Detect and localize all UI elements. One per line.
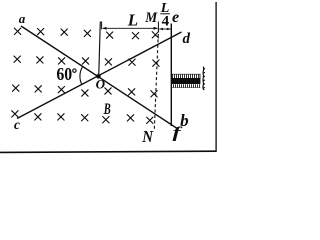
svg-text:N: N (141, 127, 153, 146)
svg-text:d: d (183, 31, 191, 47)
svg-text:60: 60 (56, 64, 72, 84)
svg-text:M: M (144, 10, 157, 26)
svg-text:4: 4 (162, 13, 170, 29)
svg-text:a: a (19, 11, 26, 26)
svg-text:e: e (172, 9, 179, 26)
svg-text:c: c (14, 117, 20, 132)
svg-text:O: O (96, 77, 106, 92)
svg-text:b: b (180, 111, 189, 130)
svg-text:B: B (103, 101, 111, 118)
svg-text:L: L (127, 11, 138, 30)
